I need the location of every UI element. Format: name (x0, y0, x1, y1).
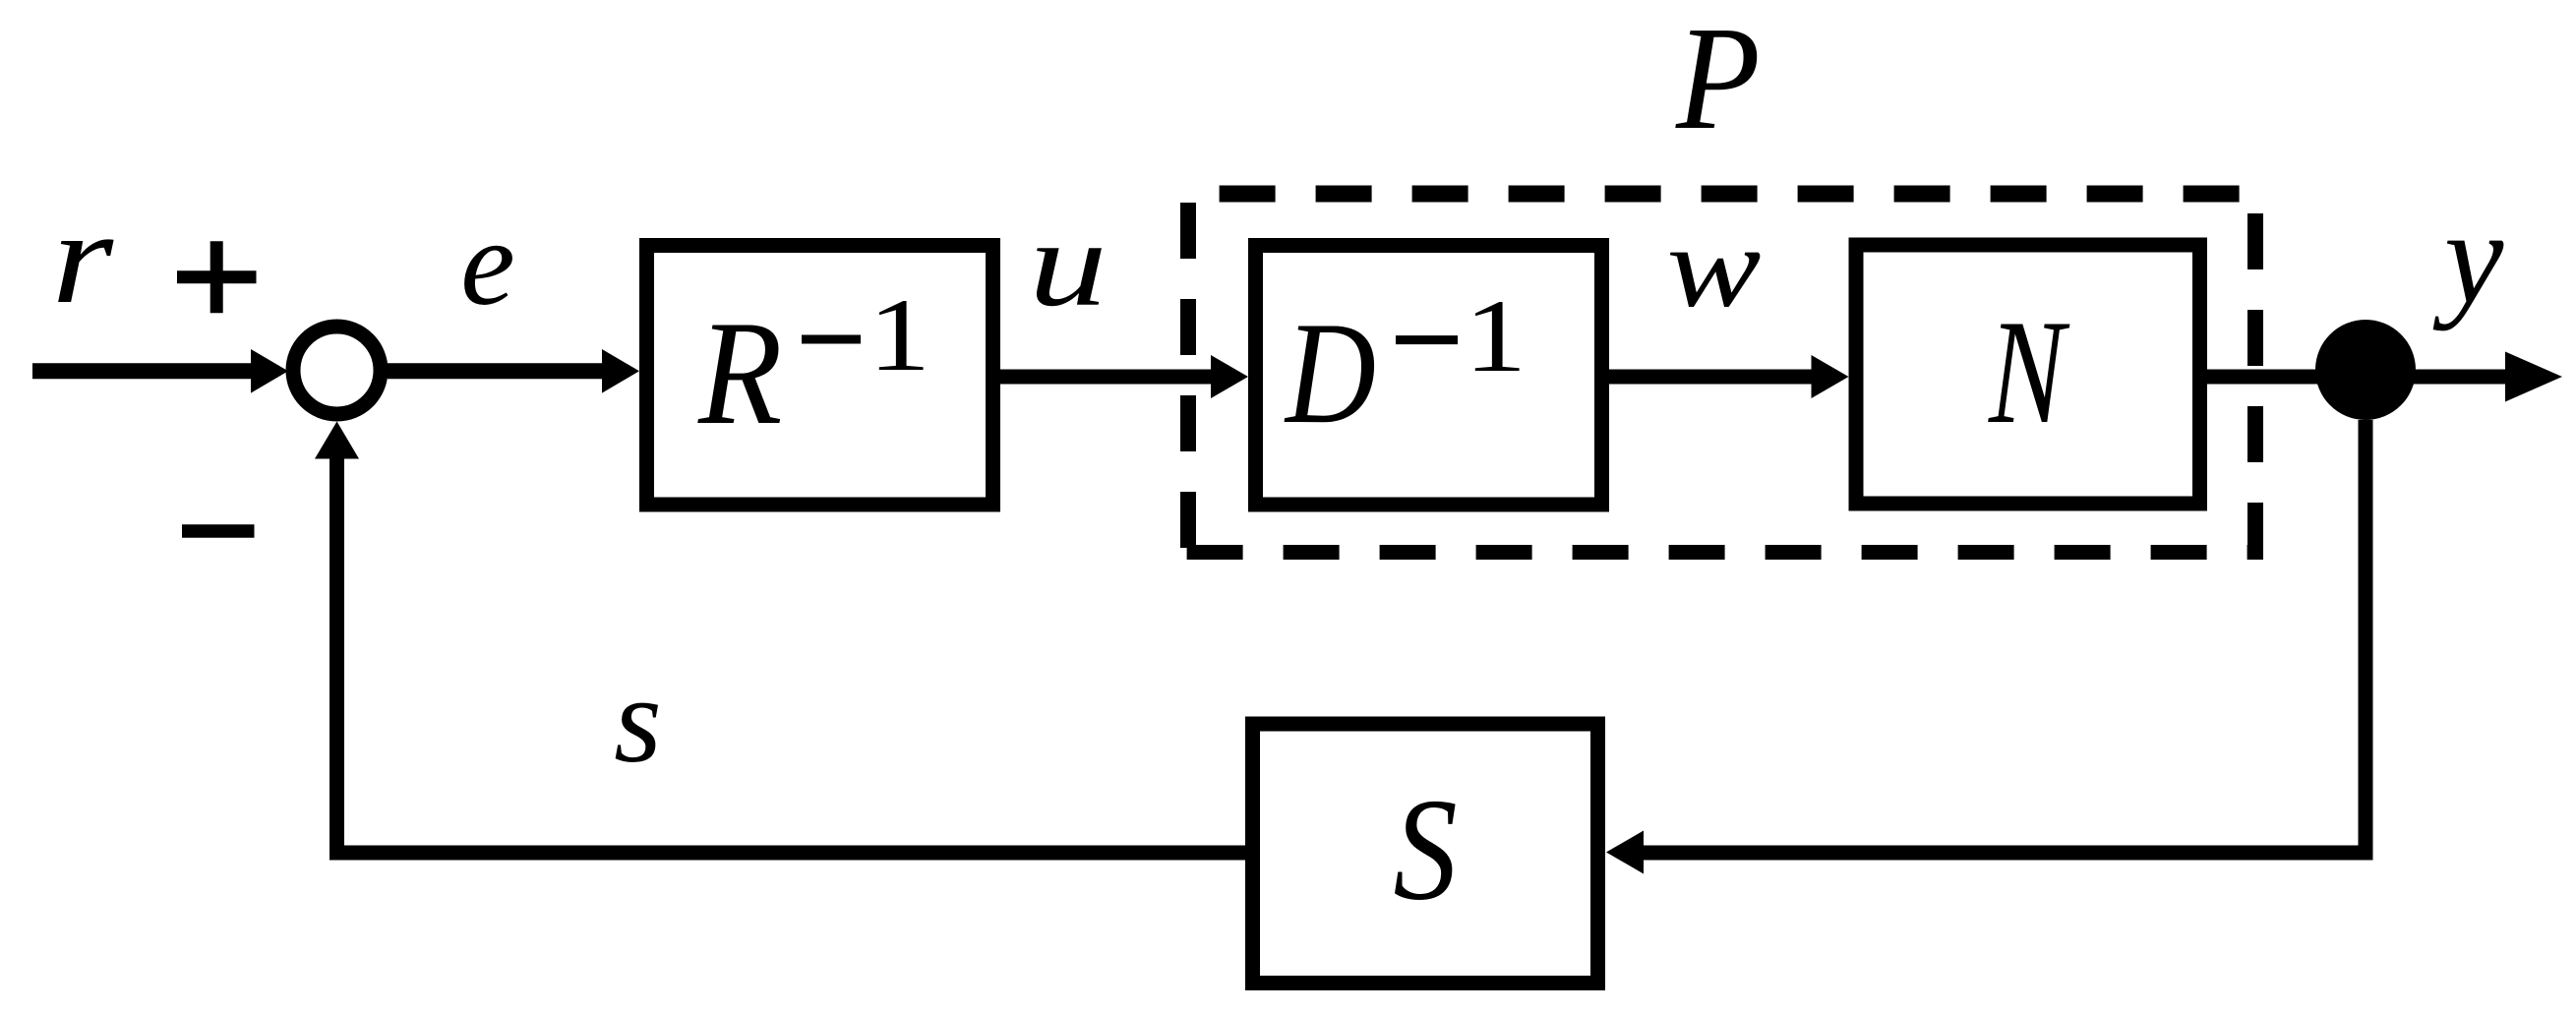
svg-text:r: r (52, 185, 115, 331)
svg-text:D: D (1284, 291, 1376, 454)
plus sign (177, 241, 257, 313)
label D^-1 (1284, 279, 1527, 453)
block R^-1 (647, 246, 993, 506)
svg-text:e: e (460, 196, 514, 331)
node dot y (2315, 320, 2416, 420)
svg-text:R: R (697, 290, 782, 456)
svg-text:s: s (614, 653, 662, 789)
wire u: R to D (999, 355, 1248, 398)
wire r input (32, 349, 288, 393)
minus sign (182, 524, 255, 538)
label N (1988, 290, 2070, 455)
wire y output (2410, 352, 2562, 402)
svg-text:1: 1 (1465, 279, 1528, 394)
svg-text:1: 1 (869, 278, 931, 393)
label S (1394, 769, 1458, 931)
wire N to node dot (2206, 370, 2321, 385)
svg-text:w: w (1666, 204, 1761, 331)
wire e: junction to R (388, 349, 639, 393)
dashed box P: left edge (1180, 203, 1196, 560)
wire w: D to N (1608, 355, 1849, 398)
svg-text:P: P (1675, 0, 1761, 160)
summing junction (293, 327, 381, 414)
node label P (1675, 0, 1761, 160)
wire: S left to junction, up into summing circle (315, 422, 1245, 854)
block D^-1 (1256, 246, 1602, 506)
node label y (2432, 184, 2504, 331)
block N (1856, 245, 2200, 504)
block S (1253, 724, 1598, 984)
label R^-1 (697, 278, 930, 456)
dashed box P: right edge (2247, 203, 2263, 560)
dashed box P: top edge (1180, 186, 2263, 203)
node label w (1666, 204, 1761, 331)
wire: dot down and left to S (1606, 420, 2366, 874)
dashed box P: bottom edge (1180, 545, 2263, 560)
svg-text:u: u (1029, 196, 1108, 332)
svg-text:N: N (1988, 290, 2070, 455)
svg-text:S: S (1394, 769, 1458, 931)
